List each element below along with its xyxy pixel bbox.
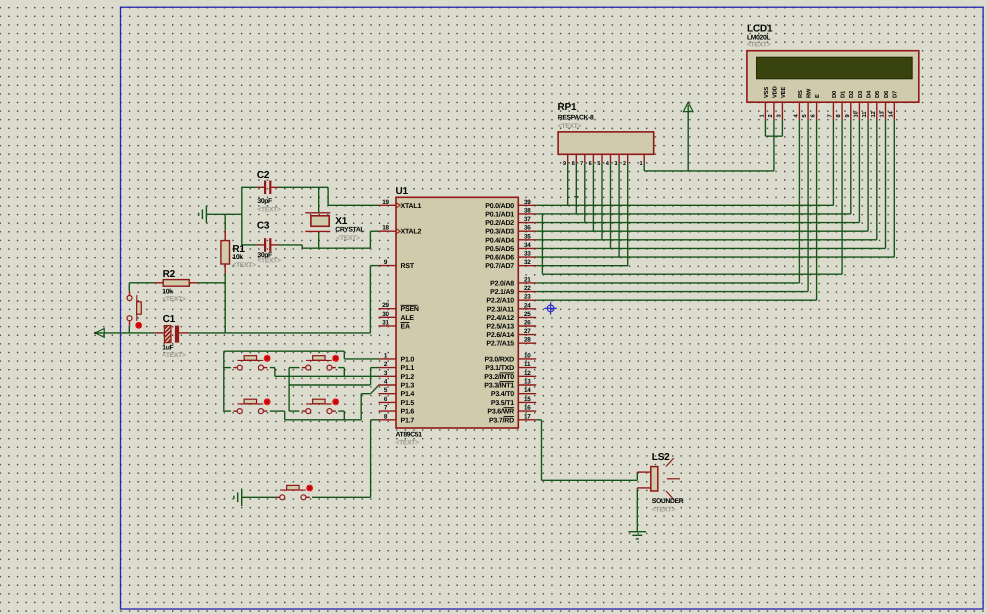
svg-text:LM020L: LM020L xyxy=(747,34,770,41)
svg-text:31: 31 xyxy=(382,319,389,326)
svg-text:10k: 10k xyxy=(162,288,173,295)
svg-text:D7: D7 xyxy=(893,91,899,98)
svg-text:30: 30 xyxy=(382,311,389,318)
svg-text:<TEXT>: <TEXT> xyxy=(162,352,186,359)
svg-text:U1: U1 xyxy=(396,186,409,197)
svg-text:16: 16 xyxy=(524,405,531,412)
svg-text:RP1: RP1 xyxy=(558,102,577,113)
svg-text:P3.1/TXD: P3.1/TXD xyxy=(485,364,514,372)
svg-text:RS: RS xyxy=(797,90,804,98)
svg-text:VSS: VSS xyxy=(763,87,770,98)
svg-text:17: 17 xyxy=(524,413,531,420)
svg-text:P2.1/A9: P2.1/A9 xyxy=(490,288,514,296)
svg-text:P2.5/A13: P2.5/A13 xyxy=(486,323,514,331)
svg-text:CRYSTAL: CRYSTAL xyxy=(335,226,364,233)
svg-text:P0.5/AD5: P0.5/AD5 xyxy=(485,245,514,253)
svg-text:33: 33 xyxy=(524,251,531,258)
svg-text:D4: D4 xyxy=(867,90,873,98)
svg-text:<TEXT>: <TEXT> xyxy=(162,296,186,303)
svg-text:SOUNDER: SOUNDER xyxy=(652,498,684,505)
svg-text:7: 7 xyxy=(827,114,833,117)
svg-text:P1.6: P1.6 xyxy=(401,409,415,416)
svg-text:<TEXT>: <TEXT> xyxy=(652,506,676,513)
svg-text:<TEXT>: <TEXT> xyxy=(747,42,771,49)
svg-text:12: 12 xyxy=(524,370,531,377)
svg-text:29: 29 xyxy=(382,302,389,309)
svg-text:C2: C2 xyxy=(257,170,270,181)
svg-text:P1.4: P1.4 xyxy=(401,391,415,398)
svg-text:P2.3/A11: P2.3/A11 xyxy=(487,305,515,313)
svg-text:25: 25 xyxy=(524,311,531,318)
svg-text:VDD: VDD xyxy=(772,86,778,98)
svg-text:P3.4/T0: P3.4/T0 xyxy=(491,390,514,398)
svg-text:P0.0/AD0: P0.0/AD0 xyxy=(485,202,514,210)
svg-text:LS2: LS2 xyxy=(652,452,670,463)
svg-text:<TEXT>: <TEXT> xyxy=(558,123,582,130)
svg-text:P1.7: P1.7 xyxy=(401,417,415,424)
svg-text:14: 14 xyxy=(888,110,894,117)
svg-text:1: 1 xyxy=(639,161,642,167)
svg-text:<TEXT>: <TEXT> xyxy=(336,235,360,242)
svg-text:P1.0: P1.0 xyxy=(401,356,415,363)
svg-text:P3.2/INT0: P3.2/INT0 xyxy=(484,373,514,381)
svg-text:P2.2/A10: P2.2/A10 xyxy=(486,297,514,305)
svg-text:11: 11 xyxy=(862,111,868,118)
svg-text:D1: D1 xyxy=(841,90,847,98)
svg-text:28: 28 xyxy=(524,337,531,344)
svg-text:E: E xyxy=(815,94,821,98)
svg-text:6: 6 xyxy=(589,161,592,167)
svg-text:RW: RW xyxy=(807,88,813,98)
svg-text:P3.5/T1: P3.5/T1 xyxy=(491,399,514,407)
svg-text:D5: D5 xyxy=(875,90,881,98)
svg-text:22: 22 xyxy=(524,285,531,292)
svg-text:P3.6/WR: P3.6/WR xyxy=(487,408,514,416)
svg-text:<TEXT>: <TEXT> xyxy=(257,257,281,264)
svg-text:18: 18 xyxy=(382,225,389,232)
svg-text:P2.6/A14: P2.6/A14 xyxy=(486,331,514,339)
svg-text:P1.5: P1.5 xyxy=(401,400,415,407)
svg-text:R2: R2 xyxy=(163,269,176,280)
svg-text:10: 10 xyxy=(524,352,531,359)
svg-text:D2: D2 xyxy=(848,91,855,98)
svg-text:27: 27 xyxy=(524,328,531,335)
svg-text:D6: D6 xyxy=(883,90,890,98)
svg-text:RST: RST xyxy=(401,263,415,270)
svg-text:3: 3 xyxy=(614,161,617,167)
svg-text:P0.1/AD1: P0.1/AD1 xyxy=(485,210,514,218)
svg-text:ALE: ALE xyxy=(401,315,415,322)
svg-text:D3: D3 xyxy=(857,90,864,98)
svg-text:7: 7 xyxy=(580,161,583,167)
svg-text:<TEXT>: <TEXT> xyxy=(232,262,256,269)
svg-text:23: 23 xyxy=(524,294,531,301)
svg-text:PSEN: PSEN xyxy=(401,306,419,313)
svg-text:13: 13 xyxy=(879,110,886,117)
svg-text:10k: 10k xyxy=(232,254,243,261)
svg-text:P0.6/AD6: P0.6/AD6 xyxy=(485,254,514,262)
svg-text:15: 15 xyxy=(524,396,531,403)
svg-text:8: 8 xyxy=(572,161,575,167)
svg-text:38: 38 xyxy=(524,207,531,214)
svg-text:9: 9 xyxy=(563,161,566,167)
svg-text:P1.3: P1.3 xyxy=(401,383,415,390)
svg-text:35: 35 xyxy=(524,233,531,240)
svg-text:C3: C3 xyxy=(257,221,270,232)
svg-text:P1.2: P1.2 xyxy=(401,374,415,381)
svg-text:10: 10 xyxy=(852,111,859,117)
svg-text:<TEXT>: <TEXT> xyxy=(257,206,281,213)
svg-text:P2.7/A15: P2.7/A15 xyxy=(486,340,514,348)
svg-text:<TEXT>: <TEXT> xyxy=(396,440,420,447)
svg-text:P3.3/INT1: P3.3/INT1 xyxy=(484,382,514,390)
svg-text:LCD1: LCD1 xyxy=(747,24,773,35)
svg-text:P2.4/A12: P2.4/A12 xyxy=(486,314,514,322)
svg-text:P3.7/RD: P3.7/RD xyxy=(489,416,514,424)
svg-text:AT89C51: AT89C51 xyxy=(396,431,423,438)
svg-text:34: 34 xyxy=(524,242,531,249)
svg-text:2: 2 xyxy=(623,161,626,167)
svg-text:P2.0/A8: P2.0/A8 xyxy=(490,279,514,287)
svg-text:30pF: 30pF xyxy=(257,198,272,205)
svg-text:24: 24 xyxy=(524,302,531,309)
svg-text:39: 39 xyxy=(524,199,531,206)
svg-text:XTAL1: XTAL1 xyxy=(401,203,422,210)
svg-text:13: 13 xyxy=(524,379,531,386)
svg-text:12: 12 xyxy=(870,111,877,117)
svg-text:2: 2 xyxy=(767,114,774,117)
svg-text:26: 26 xyxy=(524,320,531,327)
svg-text:P3.0/RXD: P3.0/RXD xyxy=(484,355,514,363)
svg-text:P0.4/AD4: P0.4/AD4 xyxy=(485,236,514,244)
svg-text:VEE: VEE xyxy=(781,87,787,98)
svg-text:D0: D0 xyxy=(831,91,838,98)
svg-text:P0.2/AD2: P0.2/AD2 xyxy=(485,219,514,227)
svg-text:P0.7/AD7: P0.7/AD7 xyxy=(485,262,514,270)
svg-text:P1.1: P1.1 xyxy=(401,365,415,372)
svg-text:19: 19 xyxy=(382,199,389,206)
svg-text:RESPACK-8: RESPACK-8 xyxy=(558,114,594,121)
svg-text:P0.3/AD3: P0.3/AD3 xyxy=(485,228,514,236)
svg-text:32: 32 xyxy=(524,259,531,266)
svg-text:36: 36 xyxy=(524,225,531,232)
svg-text:C1: C1 xyxy=(163,314,176,325)
svg-text:1uF: 1uF xyxy=(162,344,173,351)
svg-text:37: 37 xyxy=(524,216,531,223)
svg-text:EA: EA xyxy=(401,323,410,330)
svg-text:XTAL2: XTAL2 xyxy=(401,229,422,236)
svg-text:5: 5 xyxy=(597,161,600,167)
svg-text:11: 11 xyxy=(524,361,531,368)
svg-text:14: 14 xyxy=(524,387,531,394)
svg-text:21: 21 xyxy=(524,276,531,283)
